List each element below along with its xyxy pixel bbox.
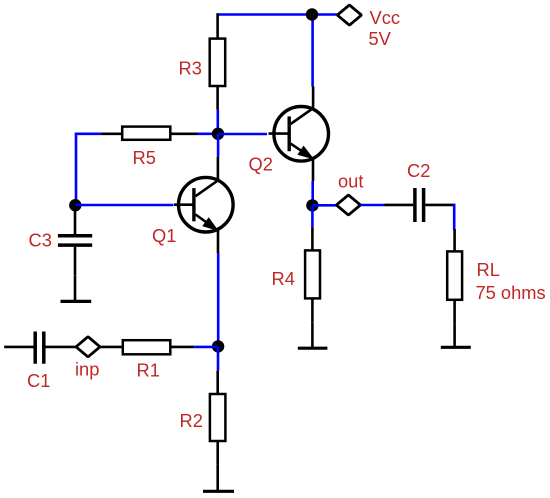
- ground below R2: [203, 465, 234, 492]
- node out junction: [306, 199, 318, 211]
- label C1: [27, 370, 50, 391]
- label R1: [137, 360, 160, 381]
- wire R5 right pin to junction: [198, 133, 219, 136]
- capacitor C2: [385, 188, 455, 222]
- resistor R2: [210, 371, 226, 465]
- label Q1: [152, 225, 176, 246]
- svg-text:R4: R4: [272, 268, 295, 289]
- svg-text:Q1: Q1: [152, 225, 176, 246]
- label Vcc: [370, 7, 400, 28]
- svg-text:R2: R2: [180, 410, 203, 431]
- svg-text:R5: R5: [133, 147, 156, 168]
- resistor R4: [305, 227, 320, 322]
- node bottom junction (R1/R2/Q1 emitter): [212, 340, 224, 352]
- value label 75 ohms: [476, 282, 546, 303]
- node base junction (R3/R5/Q1 collector/Q2 base): [212, 128, 224, 140]
- label R5: [133, 147, 156, 168]
- wire out junction down to R4: [311, 205, 314, 227]
- port out: [336, 195, 360, 215]
- label Q2: [249, 154, 273, 175]
- wire R5 left pin to feedback corner and down to C3 node: [76, 134, 102, 205]
- wire R1 right pin to bottom junction: [194, 346, 218, 349]
- svg-text:R3: R3: [179, 57, 202, 78]
- resistor R5: [102, 127, 198, 140]
- label R3: [179, 57, 202, 78]
- node feedback/C3 junction: [69, 199, 81, 211]
- svg-text:RL: RL: [477, 259, 500, 280]
- wire bottom junction down to R2: [217, 347, 220, 371]
- wire R3 bottom to junction: [217, 110, 220, 134]
- label C2: [407, 160, 430, 181]
- resistor RL: [447, 229, 462, 323]
- svg-text:Q2: Q2: [249, 154, 273, 175]
- svg-text:R1: R1: [137, 360, 160, 381]
- capacitor C3: [58, 205, 92, 275]
- wire Q1 emitter down to bottom junction: [217, 253, 220, 347]
- svg-text:C1: C1: [27, 370, 50, 391]
- label RL: [477, 259, 500, 280]
- capacitor C1: [4, 332, 76, 364]
- wire top rail from R3 to Vcc junction: [218, 13, 312, 16]
- resistor R1: [100, 340, 194, 354]
- svg-text:C2: C2: [407, 160, 430, 181]
- svg-text:Vcc: Vcc: [370, 7, 400, 28]
- wire out junction to out port: [312, 204, 336, 207]
- label C3: [29, 230, 52, 251]
- label out: [338, 171, 363, 192]
- svg-text:inp: inp: [75, 358, 99, 379]
- ground below R4: [298, 322, 328, 348]
- transistor Q2: [269, 86, 329, 181]
- value label 5V: [369, 28, 392, 49]
- wire Vcc junction down to Q2 collector: [311, 15, 314, 87]
- wire C2 right pin corner down to RL: [453, 205, 456, 229]
- wire junction to Q2 base: [218, 133, 267, 136]
- port inp: [76, 337, 100, 357]
- svg-text:out: out: [338, 171, 363, 192]
- label inp: [75, 358, 99, 379]
- label R4: [272, 268, 295, 289]
- svg-text:5V: 5V: [369, 28, 392, 49]
- ground below C3: [61, 275, 92, 301]
- wire C3 node to Q1 base: [75, 204, 173, 207]
- wire Q2 emitter to out junction: [311, 181, 314, 205]
- wire junction to Vcc port: [312, 13, 337, 16]
- node Vcc junction: [306, 8, 318, 20]
- label R2: [180, 410, 203, 431]
- ground below RL: [441, 323, 471, 347]
- resistor R3: [210, 13, 226, 109]
- wire out port to C2 left pin: [360, 204, 384, 207]
- transistor Q1: [174, 157, 233, 253]
- svg-text:C3: C3: [29, 230, 52, 251]
- wire junction down to Q1 collector: [217, 134, 220, 157]
- svg-text:75 ohms: 75 ohms: [476, 282, 546, 303]
- port Vcc: [337, 5, 361, 25]
